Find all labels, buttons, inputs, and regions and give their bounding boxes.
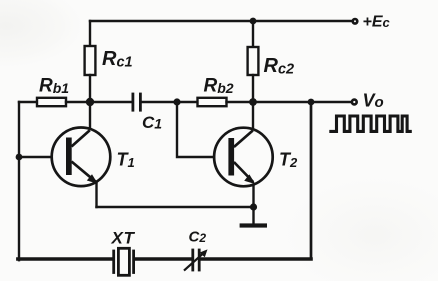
node C (Rc2/Rb2/T2 collector/Vo) xyxy=(249,98,257,106)
svg-text:XT: XT xyxy=(111,229,136,248)
svg-text:+Ec: +Ec xyxy=(363,13,391,30)
terminal Vo xyxy=(352,100,357,105)
capacitor C1 xyxy=(133,94,141,110)
trimmer C2 arrowhead xyxy=(200,249,208,257)
wire T1 emitter vertical xyxy=(95,183,97,207)
svg-text:C1: C1 xyxy=(142,113,162,132)
node emitter/ground junction xyxy=(250,203,257,210)
resistor Rb2 xyxy=(198,98,227,106)
wire Rb1 right lead xyxy=(66,101,90,103)
wire bottom left segment xyxy=(18,257,112,261)
wire output to Vo xyxy=(253,101,351,103)
wire Rb1 left lead xyxy=(19,101,37,103)
ground xyxy=(240,223,267,227)
resistor Rb1 xyxy=(37,98,66,106)
resistor Rc1 xyxy=(85,46,96,75)
wire top rail +Ec xyxy=(90,20,352,22)
terminal +Ec xyxy=(353,19,358,24)
wire C1 left lead xyxy=(90,101,132,103)
capacitor C2 (trimmer) xyxy=(193,250,199,270)
transistor T1 xyxy=(52,128,111,187)
node A (Rc1/Rb1/C1/T1 collector) xyxy=(86,98,94,106)
wire ground stem xyxy=(252,207,254,223)
node T1 base tap xyxy=(16,154,23,161)
node B (C1/Rb2/T2 base) xyxy=(173,98,180,105)
wire left vertical (T1 base net to crystal) xyxy=(18,102,20,260)
wire Rc1 top lead xyxy=(89,21,91,46)
node Vo drop junction xyxy=(308,99,315,106)
wire emitters coupling xyxy=(97,206,254,208)
wire T2 emitter vertical xyxy=(252,183,254,207)
wire Rc1 bottom lead / T1 collector xyxy=(89,75,91,131)
wire bottom middle segment xyxy=(135,257,191,261)
wire bottom right segment xyxy=(201,257,311,261)
wire Rb2 left lead xyxy=(177,101,198,103)
svg-text:C2: C2 xyxy=(189,228,207,245)
wire right vertical (Vo net down to crystal) xyxy=(310,102,313,259)
resistor Rc2 xyxy=(248,47,259,75)
trimmer arrow of C2 xyxy=(185,252,205,270)
wire Rc2 top lead xyxy=(252,21,254,47)
transistor T2 xyxy=(214,128,273,187)
wire T2 base drop xyxy=(177,102,229,157)
wire Rc2 bottom lead / T2 collector xyxy=(252,75,254,130)
wire Rb2 right lead xyxy=(227,101,254,103)
wire C1 right lead xyxy=(142,101,177,103)
node rail/Rc2 junction xyxy=(250,18,257,25)
crystal XT xyxy=(114,248,134,275)
waveform symbol at Vo xyxy=(329,116,412,131)
wire T1 base xyxy=(19,156,67,158)
svg-text:Vo: Vo xyxy=(363,90,384,111)
